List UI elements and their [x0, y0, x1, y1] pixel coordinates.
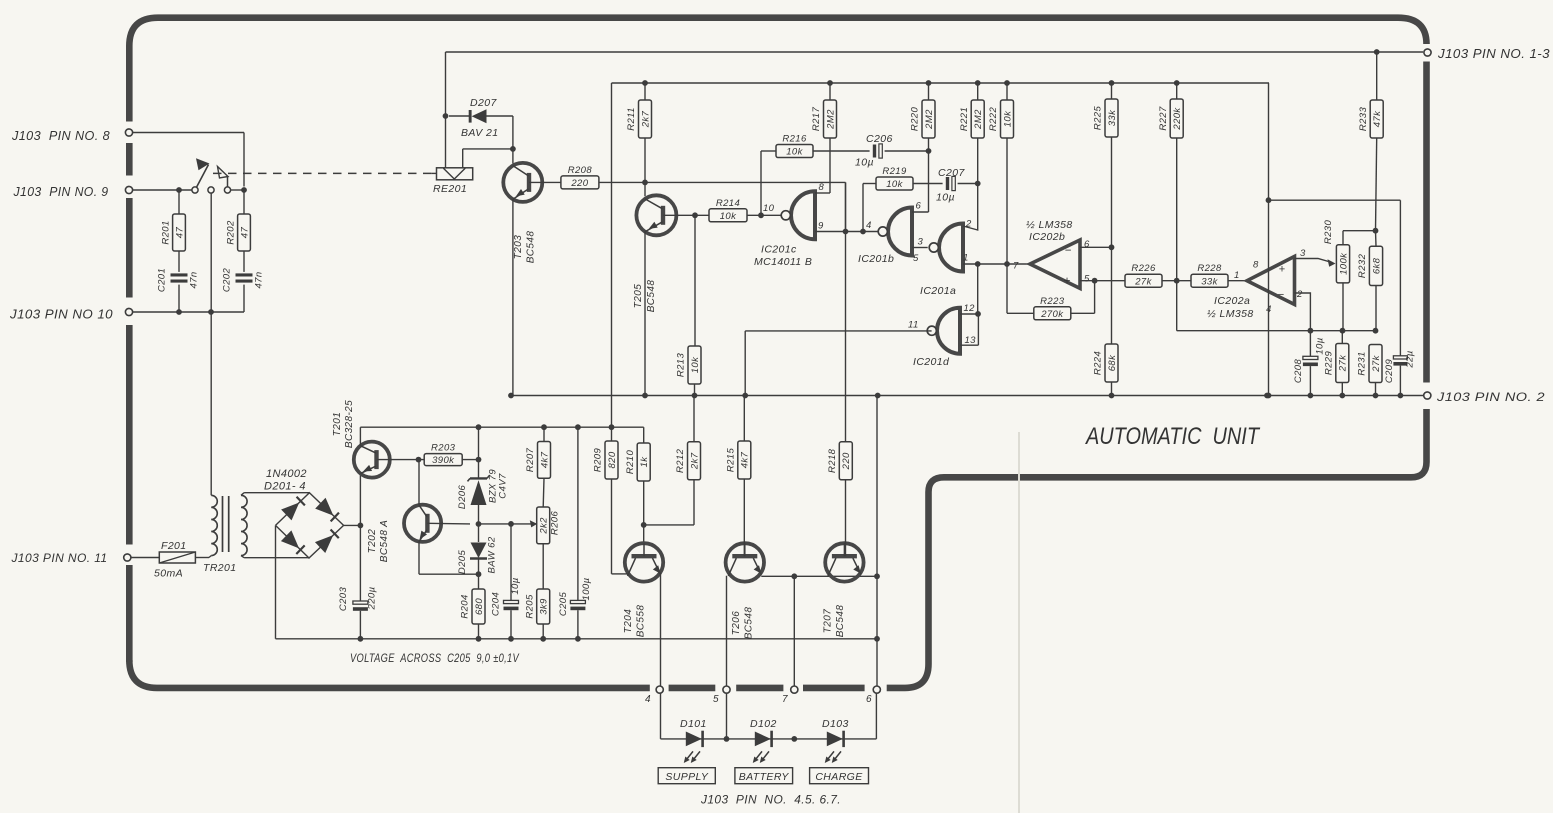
svg-text:−: −: [1278, 289, 1285, 301]
svg-text:680: 680: [474, 598, 485, 615]
node J103 pin 11: [124, 554, 131, 561]
pin 6 stub: [912, 211, 929, 213]
op-amp IC202a: [1247, 256, 1295, 304]
wire secondary bottom to bridge: [244, 557, 309, 559]
wire gate c output: [815, 231, 879, 233]
svg-text:BC548: BC548: [835, 605, 846, 638]
svg-text:10k: 10k: [720, 211, 737, 222]
wire R226 to R228: [1162, 280, 1191, 282]
svg-text:50mA: 50mA: [154, 568, 183, 580]
fuse F201: [159, 552, 195, 563]
svg-text:22µ: 22µ: [1405, 350, 1416, 368]
enclosure border right segment: [1423, 62, 1430, 383]
wire R214 to gate c: [747, 214, 782, 216]
wire op-amp b in- (pin6): [1080, 246, 1112, 248]
resistor R219: [876, 177, 913, 190]
svg-text:390k: 390k: [432, 455, 455, 466]
wire R208 output: [599, 181, 846, 183]
svg-text:100µ: 100µ: [581, 577, 592, 600]
resistor R225: [1105, 99, 1118, 137]
wire T202 emitter: [418, 542, 420, 575]
transistor T205: [636, 195, 676, 235]
wire R231 to rail: [1375, 383, 1377, 396]
svg-text:J103 PIN NO. 2: J103 PIN NO. 2: [1436, 390, 1545, 404]
wire T202 base: [427, 522, 470, 525]
capacitor C208: [1309, 331, 1311, 357]
svg-text:BATTERY: BATTERY: [739, 771, 790, 783]
wire pin8 node down: [243, 190, 245, 214]
svg-text:1k: 1k: [639, 456, 650, 468]
relay contact b: [208, 187, 214, 193]
resistor R210: [637, 443, 650, 481]
svg-text:9: 9: [818, 221, 824, 232]
svg-text:2M2: 2M2: [825, 109, 836, 130]
svg-text:R231: R231: [1357, 351, 1368, 375]
wire pin3 to R230 wiper: [1295, 259, 1333, 263]
svg-text:10k: 10k: [886, 179, 903, 190]
svg-text:3: 3: [1300, 248, 1306, 259]
resistor R209: [605, 441, 618, 479]
svg-text:13: 13: [965, 335, 977, 346]
enclosure border bottom-right jog: [887, 409, 1427, 688]
node J103 pin 4: [656, 686, 663, 693]
svg-text:R220: R220: [910, 107, 921, 132]
svg-text:BC548: BC548: [744, 607, 755, 640]
svg-text:2k7: 2k7: [640, 110, 651, 128]
svg-text:R224: R224: [1093, 351, 1104, 375]
wire bridge plus riser: [359, 474, 361, 525]
svg-text:10k: 10k: [1002, 110, 1013, 127]
nand gate IC201c: [791, 191, 815, 239]
svg-text:IC201d: IC201d: [913, 356, 950, 368]
svg-text:R223: R223: [1040, 296, 1065, 307]
wire R218 riser: [845, 182, 847, 441]
wire R222 chain: [1004, 80, 1010, 86]
trimmer R206: [537, 507, 550, 544]
nand gate IC201b: [888, 208, 912, 256]
wire top supply rail: [612, 82, 1270, 84]
svg-text:220k: 220k: [1172, 107, 1183, 131]
wire zener chain top: [478, 427, 480, 478]
node J103 pin 1-3: [1424, 49, 1431, 56]
svg-text:TR201: TR201: [203, 562, 237, 574]
svg-text:4k7: 4k7: [539, 451, 550, 468]
wire R209 to T204 base: [611, 479, 613, 574]
wire gate d input 11: [745, 330, 931, 332]
svg-text:IC201c: IC201c: [761, 244, 797, 256]
wire D206 to base node: [478, 505, 480, 524]
svg-text:47n: 47n: [189, 271, 200, 288]
svg-text:IC202b: IC202b: [1029, 231, 1065, 243]
relay contact c: [224, 187, 230, 193]
wire bridge minus down: [275, 525, 277, 638]
svg-text:5: 5: [913, 253, 919, 264]
node J103 pin 5: [723, 686, 730, 693]
junction dots + rail: [476, 424, 482, 430]
node J103 pin 8: [125, 129, 132, 136]
svg-text:4: 4: [645, 694, 651, 705]
capacitor C205: [577, 427, 579, 600]
wire R203 right: [462, 459, 478, 461]
svg-text:2: 2: [965, 219, 972, 230]
svg-text:J103 PIN NO. 4.5. 6.7.: J103 PIN NO. 4.5. 6.7.: [700, 793, 841, 807]
capacitor C207: [946, 177, 949, 190]
wire T201 collector to +rail: [359, 427, 361, 446]
transformer core: [222, 496, 224, 552]
svg-text:BC548 A: BC548 A: [379, 520, 390, 562]
svg-text:10: 10: [763, 203, 775, 214]
svg-text:6: 6: [866, 694, 872, 705]
svg-text:C201: C201: [157, 268, 168, 292]
resistor R202: [238, 214, 251, 251]
node J103 pin 7: [791, 686, 798, 693]
wire R229 to rail: [1341, 331, 1343, 344]
wire R207 chain: [543, 427, 545, 441]
bridge rectifier frame: [276, 493, 344, 558]
svg-text:+: +: [1063, 276, 1070, 288]
svg-text:J103 PIN NO. 1-3: J103 PIN NO. 1-3: [1437, 47, 1550, 61]
svg-text:C209: C209: [1384, 359, 1395, 384]
bridge diode upper-left: [281, 502, 299, 520]
svg-text:C207: C207: [938, 167, 965, 179]
wire gate a output: [963, 263, 1030, 265]
svg-text:1: 1: [1234, 270, 1240, 281]
svg-text:R213: R213: [676, 353, 687, 378]
enclosure border bottom-left corner: [129, 660, 650, 688]
svg-text:5: 5: [713, 694, 719, 705]
svg-text:T201: T201: [332, 412, 343, 436]
svg-text:5: 5: [1084, 274, 1090, 285]
bridge diode lower-left: [281, 530, 299, 548]
resistor R211: [639, 100, 652, 138]
wire fuse to transformer: [195, 557, 209, 559]
wire emitter link: [761, 575, 877, 577]
wire op-amp b in+ (pin5): [1080, 280, 1125, 282]
transistor T201: [354, 442, 390, 478]
svg-text:D101: D101: [680, 718, 707, 730]
nand gate IC201a: [939, 224, 963, 272]
svg-text:2k7: 2k7: [689, 452, 700, 470]
wire bridge plus: [344, 524, 361, 526]
svg-text:100k: 100k: [1338, 252, 1349, 275]
svg-text:IC201b: IC201b: [858, 253, 894, 265]
wire pin2 net: [1295, 293, 1311, 331]
wire contact c to R202: [231, 189, 244, 191]
transistor T207: [825, 543, 863, 581]
wire pin6 vertical: [876, 396, 878, 690]
svg-text:C4V7: C4V7: [498, 473, 509, 499]
wire T206 collector down: [726, 576, 728, 739]
wire R208 net drop to gate wire: [845, 182, 847, 231]
svg-text:R206: R206: [550, 511, 561, 536]
svg-text:−: −: [1064, 245, 1071, 257]
pin 8 stub: [815, 192, 830, 194]
wire output down to gate d: [977, 264, 979, 314]
svg-text:47: 47: [174, 227, 185, 239]
svg-text:27k: 27k: [1134, 276, 1152, 287]
relay actuation dashed link: [213, 172, 431, 174]
svg-text:C202: C202: [222, 268, 233, 293]
wire R227 node down: [1176, 281, 1178, 331]
svg-text:10k: 10k: [786, 147, 803, 158]
svg-text:IC202a: IC202a: [1214, 295, 1250, 307]
wire R233 chain: [1374, 49, 1380, 55]
wire R230 bottom: [1342, 283, 1344, 331]
svg-text:R211: R211: [626, 107, 637, 131]
svg-text:½ LM358: ½ LM358: [1207, 308, 1254, 320]
resistor R222: [1001, 100, 1014, 138]
svg-text:27k: 27k: [1338, 354, 1349, 372]
label box CHARGE: [810, 768, 869, 784]
svg-text:+: +: [1279, 264, 1286, 276]
svg-text:C205: C205: [558, 592, 569, 617]
label box SUPPLY: [658, 768, 715, 784]
svg-text:R226: R226: [1131, 263, 1156, 274]
wire R232 bottom: [1375, 286, 1377, 331]
resistor R221: [971, 100, 984, 138]
transistor T203: [503, 163, 542, 202]
wire R210 to T204: [643, 481, 645, 544]
svg-text:R218: R218: [827, 448, 838, 473]
wire T203 emitter to pin2 rail: [512, 199, 514, 395]
svg-text:4k7: 4k7: [740, 451, 751, 468]
resistor R213: [688, 346, 701, 384]
wire pin10 rail: [133, 311, 244, 313]
svg-text:R227: R227: [1158, 106, 1169, 131]
resistor R216: [776, 145, 813, 158]
svg-text:8: 8: [1253, 260, 1259, 271]
svg-text:R216: R216: [782, 134, 807, 145]
svg-text:10µ: 10µ: [855, 157, 874, 169]
svg-text:R207: R207: [525, 447, 536, 472]
svg-text:D207: D207: [470, 97, 497, 109]
transistor T202: [404, 505, 441, 542]
wire R216 to C206: [813, 150, 870, 152]
bridge diode lower-right: [315, 535, 333, 553]
svg-text:8: 8: [819, 182, 825, 193]
svg-text:VOLTAGE ACROSS C205 9,0 ±0,: VOLTAGE ACROSS C205 9,0 ±0,1V: [350, 651, 519, 665]
svg-text:2k2: 2k2: [539, 517, 550, 535]
svg-text:10µ: 10µ: [510, 577, 521, 594]
resistor R204: [472, 589, 485, 624]
svg-text:6k8: 6k8: [1371, 257, 1382, 274]
diode D205: [478, 524, 480, 542]
svg-text:R217: R217: [811, 107, 822, 132]
svg-text:270k: 270k: [1040, 309, 1064, 320]
wire R210 top: [643, 427, 645, 443]
wire C201 to pin10 rail: [178, 285, 180, 312]
wire R230 top: [1342, 231, 1344, 245]
svg-text:6: 6: [916, 201, 922, 212]
capacitor C203: [359, 525, 361, 601]
wire R223 feedback: [1007, 312, 1034, 314]
svg-text:MC14011 B: MC14011 B: [754, 256, 812, 268]
resistor R232: [1369, 246, 1382, 285]
node J103 pin 6: [873, 686, 880, 693]
svg-text:10k: 10k: [690, 356, 701, 373]
wire R221 top: [975, 80, 981, 86]
wire R228 to op-amp a: [1228, 280, 1247, 282]
svg-text:220: 220: [841, 452, 852, 470]
svg-text:½ LM358: ½ LM358: [1026, 219, 1073, 231]
resistor R228: [1191, 274, 1228, 287]
wire R227 chain: [1174, 80, 1180, 86]
nand gate IC201d: [937, 308, 960, 354]
svg-text:RE201: RE201: [433, 183, 467, 195]
svg-text:R219: R219: [882, 166, 907, 177]
capacitor C204: [510, 524, 512, 601]
svg-text:J103 PIN NO. 9: J103 PIN NO. 9: [13, 185, 109, 199]
node J103 pin 9: [125, 186, 132, 193]
svg-text:T206: T206: [731, 611, 742, 635]
svg-text:12: 12: [964, 303, 976, 314]
wire main supply vertical: [611, 83, 613, 441]
paper fold line: [1018, 432, 1020, 813]
resistor R224: [1105, 344, 1118, 382]
svg-text:6: 6: [1084, 239, 1090, 250]
wire C206 to node: [885, 150, 929, 152]
svg-text:J103 PIN NO 10: J103 PIN NO 10: [9, 308, 113, 322]
wire T204 emitter down: [660, 574, 662, 739]
wire R206 to R205: [542, 544, 544, 589]
wire R215 top: [743, 396, 745, 442]
led D101: [686, 732, 702, 747]
svg-text:BC328-25: BC328-25: [344, 400, 355, 448]
capacitor C209: [1399, 200, 1401, 356]
wire R219 to C207: [913, 183, 943, 185]
wire pin7 drop: [793, 576, 795, 689]
node J103 pin 2: [1424, 392, 1431, 399]
wire R217 chain: [827, 80, 833, 86]
wire R213 to rail: [694, 384, 696, 396]
wire pin9 to contact: [133, 189, 192, 191]
svg-text:220: 220: [570, 178, 588, 189]
wire R202 to C202: [243, 251, 245, 272]
svg-text:C208: C208: [1293, 359, 1304, 384]
wire C207 to R221 net: [958, 183, 978, 185]
resistor R227: [1170, 99, 1183, 138]
wire pin8 to switch: [133, 132, 244, 134]
wire secondary top to bridge: [244, 492, 309, 494]
transformer TR201 primary: [211, 495, 217, 555]
wire R213 drop: [694, 215, 696, 346]
wire R216 riser: [760, 151, 762, 215]
svg-text:R221: R221: [959, 107, 970, 131]
svg-text:F201: F201: [161, 540, 187, 552]
svg-text:BC548: BC548: [646, 280, 657, 313]
transistor T206: [726, 543, 764, 581]
svg-text:7: 7: [782, 694, 788, 705]
junction dots pin2 rail: [508, 393, 514, 399]
wire T201 base: [377, 459, 425, 461]
led D102: [755, 732, 771, 747]
node J103 pin 10: [125, 308, 132, 315]
wire supply branch right: [1269, 199, 1401, 201]
resistor R229: [1336, 344, 1349, 383]
wire R218 to T207: [845, 480, 847, 556]
zener diode D206: [470, 477, 487, 479]
wire T205 emitter down: [644, 232, 646, 396]
svg-text:J103 PIN NO. 8: J103 PIN NO. 8: [11, 129, 110, 143]
wire R220 top: [926, 80, 932, 86]
wire led row: [661, 738, 877, 740]
svg-text:R229: R229: [1324, 351, 1335, 376]
ground rail: [276, 638, 878, 640]
pin 2 stub: [963, 184, 978, 231]
svg-text:1: 1: [963, 253, 969, 264]
wire branch to RE201: [463, 148, 513, 150]
svg-text:1N4002: 1N4002: [266, 468, 307, 480]
svg-text:C203: C203: [338, 587, 349, 612]
svg-text:R222: R222: [988, 107, 999, 132]
svg-text:11: 11: [908, 320, 919, 331]
svg-text:3: 3: [918, 237, 924, 248]
junction dots ground rail: [358, 636, 364, 642]
resistor R208: [561, 176, 599, 189]
svg-text:J103 PIN NO. 11: J103 PIN NO. 11: [10, 551, 107, 565]
svg-text:R203: R203: [431, 443, 456, 454]
svg-text:10µ: 10µ: [936, 192, 955, 204]
transistor T204: [625, 543, 663, 581]
resistor R231: [1369, 345, 1382, 383]
resistor R223: [1034, 307, 1071, 320]
diode D207: [449, 115, 470, 117]
svg-text:BAV 21: BAV 21: [461, 127, 498, 139]
svg-text:3k9: 3k9: [539, 598, 550, 615]
svg-text:C204: C204: [491, 592, 502, 616]
svg-text:33k: 33k: [1201, 276, 1218, 287]
resistor R214: [709, 209, 747, 222]
enclosure border bottom dashes: [669, 685, 716, 692]
op-amp IC202b: [1030, 240, 1080, 288]
relay contact a: [192, 187, 198, 193]
svg-text:R212: R212: [675, 448, 686, 473]
wire R225 chain: [1109, 80, 1115, 86]
wire D205 to R204: [478, 574, 480, 589]
wire D207 down to T203: [512, 116, 514, 164]
capacitor C201: [171, 273, 188, 276]
svg-text:T205: T205: [633, 284, 644, 308]
svg-text:D102: D102: [750, 718, 777, 730]
resistor R212: [688, 442, 701, 480]
svg-text:47k: 47k: [1372, 110, 1383, 127]
trimmer R230: [1336, 245, 1349, 283]
pin 13 stub: [960, 344, 978, 346]
wire R215 to T206: [743, 479, 745, 556]
switch arm a: [197, 165, 209, 188]
wire supply through IC202a: [1268, 83, 1270, 396]
bridge diode upper-right: [315, 498, 333, 516]
led D103: [827, 732, 843, 747]
svg-text:47n: 47n: [254, 271, 265, 288]
wire T205 base: [663, 214, 709, 216]
resistor R218: [839, 442, 852, 480]
svg-text:BC548: BC548: [526, 231, 537, 264]
resistor R220: [922, 100, 935, 138]
wire R219 riser: [862, 184, 864, 232]
svg-text:IC201a: IC201a: [920, 285, 956, 297]
svg-text:820: 820: [607, 451, 618, 468]
wire contact b down to transformer: [210, 193, 212, 495]
wire C202 to pin10 rail: [243, 285, 245, 312]
svg-text:R225: R225: [1093, 106, 1104, 131]
svg-text:R204: R204: [460, 594, 471, 618]
svg-text:R214: R214: [716, 198, 740, 209]
relay coil RE201: [437, 168, 473, 180]
wire pin2 rail: [511, 395, 1423, 397]
capacitor C206: [873, 145, 876, 158]
wire gate b output: [912, 247, 928, 249]
